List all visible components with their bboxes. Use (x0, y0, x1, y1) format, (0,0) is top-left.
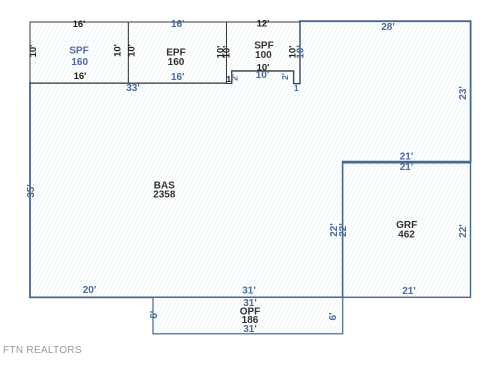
svg-text:2': 2' (280, 73, 290, 80)
area SPF 160 outline (30, 22, 128, 83)
svg-text:16': 16' (73, 19, 86, 30)
svg-text:21': 21' (400, 151, 414, 162)
svg-text:1: 1 (294, 83, 299, 93)
svg-text:FTN REALTORS: FTN REALTORS (3, 345, 82, 356)
svg-text:6': 6' (149, 311, 160, 319)
area EPF 160 outline (128, 22, 226, 83)
svg-text:20': 20' (83, 285, 97, 296)
svg-text:10': 10' (222, 46, 233, 59)
svg-text:22': 22' (338, 223, 349, 237)
area OPF 186 outline (153, 297, 343, 333)
svg-text:16': 16' (171, 19, 185, 30)
svg-text:160: 160 (71, 57, 88, 68)
svg-text:21': 21' (402, 286, 416, 297)
svg-text:10': 10' (256, 70, 270, 81)
area SPF 100 outline (notched) (227, 22, 300, 84)
svg-text:35': 35' (26, 184, 37, 198)
svg-text:31': 31' (243, 324, 257, 335)
svg-text:31': 31' (242, 285, 256, 296)
svg-text:2': 2' (230, 74, 240, 81)
svg-text:160: 160 (168, 57, 185, 68)
svg-text:100: 100 (255, 50, 272, 61)
svg-text:22': 22' (458, 224, 469, 238)
svg-text:6': 6' (328, 313, 339, 321)
svg-text:2358: 2358 (153, 189, 176, 200)
svg-text:12': 12' (257, 19, 270, 30)
svg-text:10': 10' (28, 45, 39, 58)
svg-text:10': 10' (113, 44, 124, 57)
svg-text:10': 10' (127, 44, 138, 57)
area BAS 2358 outline (30, 21, 471, 297)
svg-text:21': 21' (400, 162, 414, 173)
svg-text:33': 33' (126, 83, 140, 94)
svg-text:23': 23' (458, 86, 469, 100)
svg-text:16': 16' (171, 72, 185, 83)
svg-text:10': 10' (296, 45, 307, 59)
svg-text:462: 462 (398, 230, 415, 241)
svg-text:SPF: SPF (69, 46, 88, 57)
area GRF 462 outline (343, 163, 471, 297)
svg-text:16': 16' (74, 71, 87, 82)
svg-text:28': 28' (381, 22, 395, 33)
